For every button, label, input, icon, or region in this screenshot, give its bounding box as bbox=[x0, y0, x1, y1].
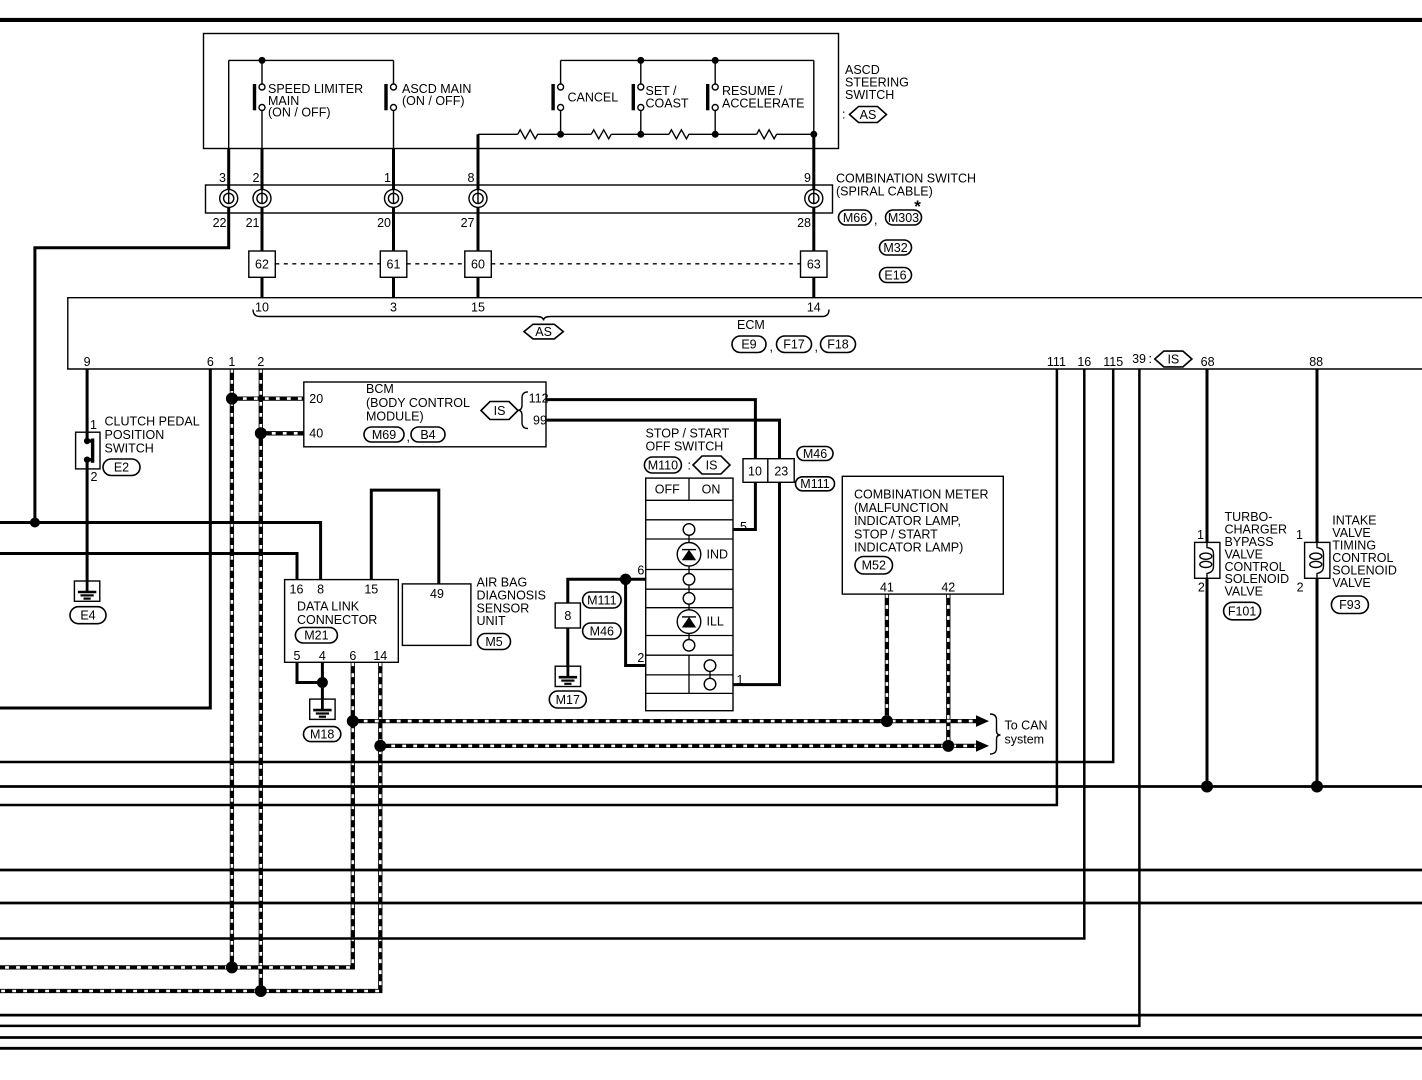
wire pin 3-22 and long run to left edge bbox=[35, 149, 229, 523]
combination switch spiral cable box bbox=[206, 185, 833, 213]
wire ECM pin 16 down and left bbox=[0, 369, 1084, 939]
svg-text:68: 68 bbox=[1201, 355, 1215, 369]
svg-text:,: , bbox=[770, 340, 773, 354]
junction dot CAN1 DLC6 bbox=[347, 715, 359, 727]
wire ECM pin 6 down and left bbox=[0, 369, 210, 708]
connector oval E9 bbox=[732, 336, 766, 353]
contact circle row5 bbox=[683, 574, 695, 586]
svg-text:DATA LINK: DATA LINK bbox=[297, 600, 360, 614]
svg-text:AS: AS bbox=[860, 108, 877, 122]
label SPEED LIMITER MAIN (ON / OFF) bbox=[268, 82, 363, 120]
svg-text:6: 6 bbox=[207, 355, 214, 369]
svg-text:(BODY CONTROL: (BODY CONTROL bbox=[366, 396, 470, 410]
svg-text:1: 1 bbox=[384, 171, 391, 185]
connector square 61 bbox=[380, 251, 407, 277]
contact circle row10 right bbox=[704, 678, 716, 690]
connector oval M110 bbox=[644, 457, 681, 473]
svg-text:F101: F101 bbox=[1228, 604, 1257, 618]
label CLUTCH PEDAL POSITION SWITCH bbox=[105, 415, 200, 456]
label RESUME / ACCELERATE bbox=[722, 84, 804, 111]
label BCM body control module bbox=[366, 382, 470, 424]
svg-text:49: 49 bbox=[430, 587, 444, 601]
svg-text:(ON / OFF): (ON / OFF) bbox=[402, 94, 465, 108]
IS hexagon stop/start bbox=[693, 456, 730, 474]
svg-text:3: 3 bbox=[390, 301, 397, 315]
wire speed limiter switch legs bbox=[261, 60, 263, 148]
connector oval M32 bbox=[880, 240, 912, 255]
svg-text:5: 5 bbox=[294, 649, 301, 663]
switch SET/COAST bbox=[632, 84, 644, 111]
svg-text:2: 2 bbox=[637, 651, 644, 665]
ground oval M18 bbox=[304, 727, 341, 742]
svg-text:99: 99 bbox=[533, 414, 547, 428]
curly brace BCM pins bbox=[518, 392, 528, 429]
svg-text::: : bbox=[842, 108, 845, 122]
switch ASCD MAIN bbox=[384, 84, 396, 111]
ground oval E4 bbox=[70, 607, 106, 624]
wire pin 8-27-60 vertical bbox=[477, 134, 480, 297]
wire DLC pin 14 dashed down to CAN bus bbox=[0, 662, 380, 991]
svg-text:F18: F18 bbox=[827, 338, 849, 352]
svg-text:63: 63 bbox=[807, 258, 821, 272]
svg-text:(ON / OFF): (ON / OFF) bbox=[268, 106, 331, 120]
wire ECM pin 9 to clutch switch and ground bbox=[86, 369, 89, 581]
resistor R2 bbox=[591, 130, 611, 139]
junction dot DLC ground branch bbox=[317, 677, 328, 688]
junction dot resume top bbox=[712, 57, 719, 64]
svg-text:20: 20 bbox=[377, 216, 391, 230]
svg-text:ON: ON bbox=[702, 483, 721, 497]
svg-text:STOP / START: STOP / START bbox=[854, 527, 938, 541]
wire ECM pin 111 down and left bbox=[0, 369, 1057, 805]
svg-text:28: 28 bbox=[797, 216, 811, 230]
svg-text:40: 40 bbox=[309, 427, 323, 441]
connector oval M111 left bbox=[583, 592, 622, 608]
svg-text:M66: M66 bbox=[843, 211, 867, 225]
spiral cable symbol pin 2/21 bbox=[253, 189, 271, 207]
svg-text:112: 112 bbox=[529, 392, 549, 406]
wire BCM pin 40 dashed branch bbox=[261, 431, 304, 435]
wire bottom bus y786 full width bbox=[0, 785, 1422, 788]
dashed link 62-61-60-63 bbox=[275, 263, 800, 265]
svg-text:COMBINATION SWITCH: COMBINATION SWITCH bbox=[836, 172, 976, 186]
BCM box bbox=[304, 382, 546, 447]
svg-text:E2: E2 bbox=[114, 461, 129, 475]
svg-text:B4: B4 bbox=[420, 428, 435, 442]
svg-text:,: , bbox=[407, 430, 410, 444]
wire connector 8 to ground M17 bbox=[566, 628, 569, 666]
wire pin 1-20-61 vertical bbox=[392, 149, 395, 298]
connector oval F18 bbox=[821, 336, 856, 353]
label STOP / START OFF SWITCH bbox=[646, 427, 730, 454]
junction dot right end resistor line bbox=[810, 131, 817, 138]
wire bottom bus y870 full width bbox=[0, 869, 1422, 872]
wire resume/accelerate switch legs bbox=[714, 60, 716, 134]
junction dot BCM40 on wire 2 bbox=[255, 427, 267, 439]
wire bottom bus y1037 full width bbox=[0, 1036, 1422, 1039]
svg-text:10: 10 bbox=[748, 464, 762, 478]
label DATA LINK CONNECTOR bbox=[297, 600, 377, 627]
svg-text:2: 2 bbox=[1297, 581, 1304, 595]
data link connector box bbox=[285, 580, 399, 663]
wire CAN line 2 to arrow bbox=[380, 744, 978, 748]
label ASCD MAIN (ON / OFF) bbox=[402, 82, 471, 108]
svg-text:,: , bbox=[874, 213, 877, 227]
wire ECM pin 2 (CAN-L) dashed, down to lower bus bbox=[259, 369, 263, 991]
wire bottom bus y903 full width bbox=[0, 902, 1422, 905]
svg-text:BCM: BCM bbox=[366, 382, 394, 396]
svg-text:9: 9 bbox=[84, 355, 91, 369]
svg-text:2: 2 bbox=[253, 171, 260, 185]
svg-text:SWITCH: SWITCH bbox=[105, 442, 154, 456]
svg-text:M52: M52 bbox=[862, 559, 886, 573]
contact circle row3 bbox=[683, 524, 695, 536]
ASCD steering switch outer box bbox=[204, 34, 839, 149]
wire BCM 99 to stop/start pin 1 bbox=[546, 420, 780, 684]
wire stop/start pin 2 branch bbox=[626, 579, 646, 665]
wire ECM pin 115 down and left bbox=[0, 369, 1113, 762]
junction dot turbo solenoid bus bbox=[1201, 781, 1213, 793]
svg-text:F17: F17 bbox=[783, 338, 805, 352]
junction dot CAN1 meter41 bbox=[881, 715, 893, 727]
svg-text:VALVE: VALVE bbox=[1332, 576, 1370, 590]
wire ECM pin 68 to turbo solenoid and bus bbox=[1206, 369, 1209, 787]
connector box 10/23 bbox=[743, 459, 794, 483]
connector square 62 bbox=[249, 251, 275, 277]
junction dot cancel resistor line bbox=[557, 131, 564, 138]
svg-text:POSITION: POSITION bbox=[105, 428, 165, 442]
svg-text:23: 23 bbox=[774, 464, 788, 478]
switch SPEED LIMITER MAIN bbox=[253, 84, 265, 111]
svg-text:5: 5 bbox=[740, 520, 747, 534]
spiral cable symbol pin 1/20 bbox=[385, 189, 403, 207]
ECM box outline bbox=[68, 298, 1422, 369]
connector oval B4 bbox=[411, 427, 445, 442]
svg-text:F93: F93 bbox=[1339, 598, 1361, 612]
svg-text:111: 111 bbox=[1047, 355, 1066, 369]
wire ECM pin 1 (CAN-H) dashed, down to lower bus bbox=[230, 369, 234, 967]
svg-text::: : bbox=[688, 459, 691, 473]
ground oval M17 bbox=[549, 691, 586, 708]
connector square 63 bbox=[801, 251, 828, 277]
svg-text:E4: E4 bbox=[80, 609, 95, 623]
svg-text:M110: M110 bbox=[648, 458, 678, 472]
svg-text:INDICATOR LAMP,: INDICATOR LAMP, bbox=[854, 514, 961, 528]
connector oval M21 bbox=[295, 628, 337, 644]
air bag diagnosis sensor unit box bbox=[402, 584, 471, 646]
resistor R1 bbox=[518, 130, 538, 139]
resistor R4 bbox=[757, 130, 777, 139]
svg-text:3: 3 bbox=[219, 171, 226, 185]
svg-text:IS: IS bbox=[494, 404, 506, 418]
svg-text:SWITCH: SWITCH bbox=[845, 88, 894, 102]
spiral cable symbol pin 9/28 bbox=[805, 189, 823, 207]
svg-text:4: 4 bbox=[319, 649, 326, 663]
wire resistor chain line bbox=[478, 133, 814, 135]
junction dot CAN2 meter42 bbox=[942, 740, 954, 752]
AS hexagon under ECM bbox=[524, 324, 563, 339]
svg-text:27: 27 bbox=[461, 216, 475, 230]
contact circle row9 right bbox=[704, 660, 716, 672]
IS hexagon ECM bbox=[1155, 351, 1192, 367]
wire BCM pin 20 dashed branch bbox=[232, 396, 304, 400]
svg-text:(MALFUNCTION: (MALFUNCTION bbox=[854, 501, 948, 515]
ground M18 symbol bbox=[310, 699, 335, 719]
svg-text:ILL: ILL bbox=[707, 615, 724, 629]
label INTAKE VALVE TIMING CONTROL SOLENOID VALVE bbox=[1332, 514, 1397, 590]
svg-text:M111: M111 bbox=[587, 593, 616, 607]
connector square 8 bbox=[555, 603, 580, 628]
svg-text:COAST: COAST bbox=[646, 97, 689, 111]
svg-text:1: 1 bbox=[90, 418, 97, 432]
top border bar bbox=[0, 18, 1422, 22]
connector oval E2 bbox=[103, 459, 140, 476]
wire right branch vertical to resistor line bbox=[813, 60, 815, 134]
wire combination meter pin 41 dashed bbox=[885, 594, 889, 721]
svg-text:system: system bbox=[1005, 733, 1045, 747]
svg-text::: : bbox=[1149, 352, 1152, 366]
svg-text:CLUTCH PEDAL: CLUTCH PEDAL bbox=[105, 415, 200, 429]
wire bottom bus y1015 full width bbox=[0, 1014, 1422, 1017]
svg-text:14: 14 bbox=[807, 301, 821, 315]
svg-text:M111: M111 bbox=[800, 477, 829, 491]
wire pin3 vertical inside ASCD box bbox=[228, 60, 230, 148]
junction dot BCM20 on wire 1 bbox=[226, 393, 238, 405]
connector oval M69 bbox=[364, 427, 404, 442]
wire DLC pin 15 to air bag unit pin 49 bbox=[371, 490, 439, 584]
svg-text:42: 42 bbox=[941, 581, 955, 595]
spiral cable symbol pin 8/27 bbox=[469, 189, 487, 207]
contact circle row6 bbox=[683, 593, 695, 605]
svg-text:61: 61 bbox=[387, 258, 401, 272]
stop/start switch contact chain line bbox=[689, 524, 710, 684]
svg-text:IS: IS bbox=[706, 458, 718, 472]
combination meter box bbox=[842, 476, 1003, 594]
wire to DLC pin 16 from left edge bbox=[0, 554, 297, 580]
connector oval F93 bbox=[1331, 596, 1368, 614]
arrowhead CAN line 1 bbox=[976, 715, 989, 727]
svg-text:VALVE: VALVE bbox=[1225, 585, 1263, 599]
wire stop/start pin 6 to connector 8 bbox=[568, 579, 646, 603]
connector oval M46 right bbox=[797, 447, 833, 461]
junction dot lower bus wire2 bbox=[255, 985, 267, 997]
svg-text:39: 39 bbox=[1132, 352, 1146, 366]
arrowhead CAN line 2 bbox=[976, 740, 989, 752]
wire DLC pins 5 and 4 to ground M18 bbox=[297, 662, 322, 699]
wire ECM pin 39 down and left bbox=[0, 369, 1139, 1026]
stop/start off switch table bbox=[646, 478, 733, 711]
spiral cable symbol pin 3/22 bbox=[220, 189, 238, 207]
ground E4 symbol bbox=[74, 581, 99, 601]
svg-text:115: 115 bbox=[1103, 355, 1123, 369]
svg-text:M32: M32 bbox=[883, 241, 907, 255]
svg-text:IND: IND bbox=[707, 547, 729, 561]
wire ASCD internal top-right branch bbox=[561, 59, 814, 61]
svg-text:16: 16 bbox=[1077, 355, 1091, 369]
svg-text:20: 20 bbox=[309, 392, 323, 406]
svg-text:ACCELERATE: ACCELERATE bbox=[722, 97, 804, 111]
connector square 60 bbox=[465, 251, 492, 277]
label COMBINATION SWITCH (SPIRAL CABLE) bbox=[836, 172, 976, 199]
clutch pedal position switch box bbox=[76, 432, 100, 469]
svg-text:21: 21 bbox=[246, 216, 260, 230]
label ASCD STEERING SWITCH bbox=[845, 63, 909, 102]
svg-text:UNIT: UNIT bbox=[477, 614, 507, 628]
IS hexagon in BCM bbox=[481, 402, 518, 420]
svg-text:E9: E9 bbox=[741, 338, 756, 352]
wire combination meter pin 42 dashed bbox=[946, 594, 950, 746]
svg-text:2: 2 bbox=[91, 470, 98, 484]
ground M17 symbol bbox=[555, 666, 580, 686]
clutch switch contacts and lever bbox=[84, 438, 94, 463]
svg-text:1: 1 bbox=[1197, 528, 1204, 542]
svg-text:M18: M18 bbox=[310, 727, 334, 741]
junction dot intake solenoid bus bbox=[1311, 781, 1323, 793]
svg-text:2: 2 bbox=[257, 355, 264, 369]
svg-text:1: 1 bbox=[228, 355, 235, 369]
svg-text:8: 8 bbox=[564, 609, 571, 623]
svg-text:62: 62 bbox=[255, 258, 269, 272]
svg-text:OFF SWITCH: OFF SWITCH bbox=[646, 440, 724, 454]
connector oval M52 bbox=[855, 557, 893, 575]
svg-text:OFF: OFF bbox=[655, 483, 680, 497]
intake valve timing control solenoid symbol F93 bbox=[1305, 542, 1330, 578]
resistor R3 bbox=[669, 130, 689, 139]
connector oval M46 left bbox=[583, 623, 622, 639]
wire ECM pin 88 to intake solenoid and bus bbox=[1316, 369, 1319, 787]
diode ILL lamp bbox=[677, 610, 701, 634]
svg-text:CANCEL: CANCEL bbox=[568, 91, 619, 105]
junction dot stop/start pin6 branch bbox=[620, 574, 631, 585]
svg-text:,: , bbox=[815, 340, 818, 354]
hexagon AS steering bbox=[850, 107, 887, 123]
svg-text:88: 88 bbox=[1309, 355, 1323, 369]
junction dot set/coast top bbox=[637, 57, 644, 64]
svg-text:22: 22 bbox=[213, 216, 227, 230]
wire DLC pin 6 dashed down to CAN bus bbox=[0, 662, 353, 967]
wire from junction A to DLC pin 8 bbox=[0, 523, 321, 580]
underbrace for AS pins bbox=[253, 310, 829, 321]
wire CAN line 1 to arrow bbox=[353, 719, 978, 723]
turbo charger bypass valve solenoid symbol F101 bbox=[1195, 542, 1220, 578]
wire pin 9-28-63 vertical bbox=[812, 134, 815, 297]
svg-text:MODULE): MODULE) bbox=[366, 410, 424, 424]
svg-text:60: 60 bbox=[471, 258, 485, 272]
svg-text:16: 16 bbox=[290, 583, 304, 597]
svg-text:1: 1 bbox=[737, 673, 744, 687]
svg-text:E16: E16 bbox=[884, 268, 906, 282]
svg-text:15: 15 bbox=[364, 583, 378, 597]
svg-text:STOP / START: STOP / START bbox=[646, 427, 730, 441]
svg-text:8: 8 bbox=[317, 583, 324, 597]
junction dot lower bus wire1 bbox=[226, 961, 238, 973]
svg-text:ECM: ECM bbox=[737, 318, 765, 332]
svg-text:M17: M17 bbox=[556, 693, 580, 707]
junction dot speed limiter branch bbox=[259, 57, 266, 64]
svg-text:*: * bbox=[914, 197, 921, 216]
svg-text:M21: M21 bbox=[304, 629, 328, 643]
label TURBO-CHARGER BYPASS VALVE CONTROL SOLENOID VALVE bbox=[1225, 510, 1290, 599]
label To CAN system bbox=[1005, 718, 1048, 746]
svg-text:M46: M46 bbox=[803, 447, 827, 461]
wire ASCD internal top-left branch bbox=[229, 59, 394, 61]
junction dot set/coast resistor line bbox=[637, 131, 644, 138]
connector oval M5 bbox=[478, 634, 511, 650]
svg-text:9: 9 bbox=[804, 171, 811, 185]
svg-text:10: 10 bbox=[255, 301, 269, 315]
svg-text:41: 41 bbox=[880, 581, 894, 595]
curly brace To CAN bbox=[990, 714, 1001, 754]
connector oval E16 bbox=[880, 268, 912, 283]
svg-text:M46: M46 bbox=[590, 624, 614, 638]
junction dot A left run bbox=[30, 518, 40, 528]
wire BCM 112 to stop/start pin 5 bbox=[546, 400, 755, 530]
label AIR BAG DIAGNOSIS SENSOR UNIT bbox=[477, 576, 546, 628]
svg-text:IS: IS bbox=[1167, 352, 1179, 366]
svg-text:1: 1 bbox=[1296, 528, 1303, 542]
svg-text:COMBINATION METER: COMBINATION METER bbox=[854, 488, 989, 502]
svg-text:15: 15 bbox=[471, 301, 485, 315]
switch RESUME/ACCELERATE bbox=[706, 84, 718, 111]
label COMBINATION METER block bbox=[854, 488, 989, 555]
connector oval F17 bbox=[777, 336, 812, 353]
switch CANCEL bbox=[551, 84, 563, 111]
svg-text:AS: AS bbox=[535, 325, 552, 339]
junction dot CAN2 DLC14 bbox=[374, 740, 386, 752]
contact circle row8 bbox=[683, 640, 695, 652]
wire bottom bus y1048 full width bbox=[0, 1047, 1422, 1050]
diode IND lamp bbox=[677, 543, 701, 567]
connector oval F101 bbox=[1224, 602, 1261, 620]
svg-text:INDICATOR LAMP): INDICATOR LAMP) bbox=[854, 541, 963, 555]
svg-text:2: 2 bbox=[1198, 581, 1205, 595]
wire cancel switch legs bbox=[560, 60, 562, 134]
svg-text:14: 14 bbox=[373, 649, 387, 663]
connector oval M303 bbox=[886, 210, 922, 225]
svg-text:CONNECTOR: CONNECTOR bbox=[297, 613, 377, 627]
connector oval M111 right bbox=[796, 477, 835, 491]
svg-text:6: 6 bbox=[637, 564, 644, 578]
wire pin 2-21-62 vertical bbox=[261, 149, 264, 298]
svg-text:To CAN: To CAN bbox=[1005, 718, 1048, 732]
connector oval M66 bbox=[839, 210, 872, 225]
wire set/coast switch legs bbox=[640, 60, 642, 134]
svg-text:6: 6 bbox=[349, 649, 356, 663]
svg-text:8: 8 bbox=[468, 171, 475, 185]
label SET / COAST bbox=[646, 84, 689, 111]
junction dot resume resistor line bbox=[712, 131, 719, 138]
svg-text:M69: M69 bbox=[372, 428, 396, 442]
svg-text:M5: M5 bbox=[485, 635, 502, 649]
wire ascd main switch legs bbox=[393, 60, 395, 148]
